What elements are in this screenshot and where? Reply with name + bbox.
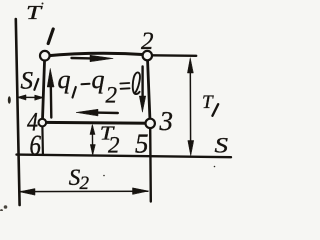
wire extension below node 3 to 5	[149, 128, 152, 202]
svg-text:T: T	[26, 2, 44, 24]
node 4	[39, 119, 47, 127]
T axis	[16, 19, 20, 205]
svg-text:2: 2	[80, 173, 90, 194]
wire left edge 4-1	[42, 56, 44, 122]
svg-text:3: 3	[159, 106, 174, 136]
dimension T1 arrow	[187, 58, 193, 156]
cycle arrow top (right)	[72, 55, 114, 61]
cycle arrow right (down)	[139, 67, 145, 113]
cycle arrow left (up)	[47, 69, 54, 118]
dimension S1 arrow	[17, 95, 43, 100]
svg-text:2: 2	[141, 28, 154, 55]
wire top edge 1-2	[45, 53, 147, 56]
svg-text:S: S	[215, 133, 229, 158]
cycle arrow bottom (left)	[76, 109, 118, 116]
svg-text:S: S	[21, 67, 34, 94]
node 1	[40, 51, 50, 61]
dimension S2 arrow	[19, 188, 148, 195]
svg-text:2: 2	[106, 83, 118, 108]
svg-text:5: 5	[135, 129, 149, 159]
node 3	[146, 119, 155, 128]
svg-text:T: T	[202, 92, 214, 113]
wire extension right of node 2	[152, 54, 196, 57]
S axis	[17, 155, 232, 158]
wire extension below node 4 to 6	[41, 127, 44, 155]
svg-text:6: 6	[30, 130, 42, 162]
label l (script ell)	[133, 72, 140, 94]
svg-text:q: q	[92, 65, 105, 94]
node 2	[143, 51, 152, 60]
node label 1	[48, 29, 53, 44]
wire right edge 2-3	[147, 56, 150, 123]
wire bottom edge 3-4	[42, 121, 150, 125]
svg-text:q: q	[58, 65, 71, 94]
svg-text:2: 2	[108, 133, 120, 158]
ink specks	[0, 3, 215, 212]
dimension T2 arrow	[90, 125, 95, 155]
